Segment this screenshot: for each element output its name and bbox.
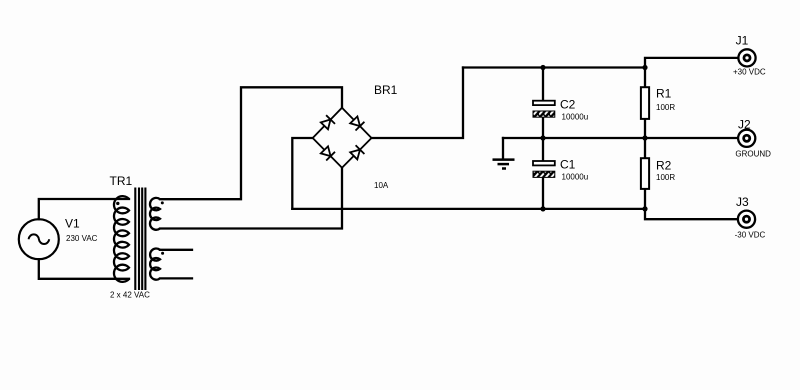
wire ground rail to C1: [542, 138, 544, 160]
svg-text:J3: J3: [736, 195, 749, 209]
wire R2 to negative rail: [644, 189, 646, 209]
svg-text:10000u: 10000u: [562, 173, 589, 182]
capacitor C2: [533, 98, 588, 122]
connector J3: [735, 195, 766, 240]
primary polarity dot: [116, 202, 119, 205]
wire ground rail to R2: [644, 138, 646, 158]
wire V1 top to primary: [39, 199, 129, 219]
svg-text:R2: R2: [656, 158, 672, 172]
wire R1 to ground rail: [644, 119, 646, 138]
svg-text:+30 VDC: +30 VDC: [733, 68, 766, 77]
ground: [493, 138, 515, 169]
wire positive rail to C2: [542, 68, 544, 101]
svg-text:10000u: 10000u: [562, 113, 589, 122]
junction C1-C2 / ground rail: [540, 135, 545, 140]
junction C2 top / positive rail: [540, 65, 545, 70]
diode lower-left (L to B): [321, 146, 335, 160]
wire lower secondary stub top: [160, 249, 192, 251]
secondary lower polarity dot: [161, 252, 164, 255]
svg-text:230 VAC: 230 VAC: [66, 234, 98, 243]
junction R1 top / positive rail: [642, 65, 647, 70]
svg-text:10A: 10A: [374, 181, 389, 190]
svg-text:100R: 100R: [656, 103, 675, 112]
wire secondary top to bridge top vertex: [160, 87, 342, 199]
junction R1-R2 / ground rail: [642, 135, 647, 140]
transformer TR1: [110, 174, 165, 300]
svg-text:TR1: TR1: [110, 174, 133, 188]
svg-text:-30 VDC: -30 VDC: [735, 231, 766, 240]
svg-text:V1: V1: [65, 217, 80, 231]
wire lower secondary stub bottom: [160, 277, 192, 279]
svg-text:GROUND: GROUND: [735, 150, 771, 159]
bridge diamond: [313, 108, 372, 168]
connector J1: [733, 33, 766, 76]
resistor R1: [641, 87, 675, 119]
wire negative rail step to J3: [645, 209, 738, 219]
wire positive rail: [463, 66, 645, 68]
svg-text:C1: C1: [560, 158, 576, 172]
transformer TR1 primary winding: [114, 196, 129, 282]
svg-text:BR1: BR1: [374, 83, 398, 97]
voltage source V1: [19, 217, 98, 260]
wire negative rail: [292, 208, 645, 210]
junction R2 bottom / negative rail: [642, 206, 647, 211]
svg-text:J1: J1: [736, 33, 749, 47]
svg-text:R1: R1: [656, 87, 672, 101]
capacitor C1: [533, 158, 588, 182]
wire secondary bottom to bridge bottom vertex: [160, 168, 342, 229]
svg-text:100R: 100R: [656, 173, 675, 182]
wire ground rail: [503, 137, 738, 139]
wire bridge left vertex to negative rail: [292, 138, 312, 209]
bridge rectifier BR1: [313, 83, 398, 190]
diode upper-left (L to T): [321, 115, 335, 129]
diode upper-right (T to R): [350, 116, 364, 130]
wire bridge right vertex up to positive rail: [372, 68, 464, 139]
secondary upper polarity dot: [161, 201, 164, 204]
resistor R2: [641, 158, 675, 189]
wire C1 to negative rail: [542, 178, 544, 209]
connector J2: [735, 118, 771, 159]
transformer TR1 secondary winding lower: [150, 248, 160, 279]
svg-text:2 x 42 VAC: 2 x 42 VAC: [110, 291, 150, 300]
diode lower-right (B to R): [350, 145, 364, 159]
wire positive rail to R1: [644, 68, 646, 88]
transformer TR1 secondary winding upper: [150, 198, 160, 230]
transformer TR1 core: [134, 188, 136, 291]
wire C2 to ground rail: [542, 117, 544, 138]
junction C1 bottom / negative rail: [540, 206, 545, 211]
wire V1 bottom to primary: [39, 259, 129, 279]
svg-text:C2: C2: [560, 98, 576, 112]
svg-text:J2: J2: [738, 118, 751, 132]
wire positive rail step to J1: [645, 58, 738, 68]
